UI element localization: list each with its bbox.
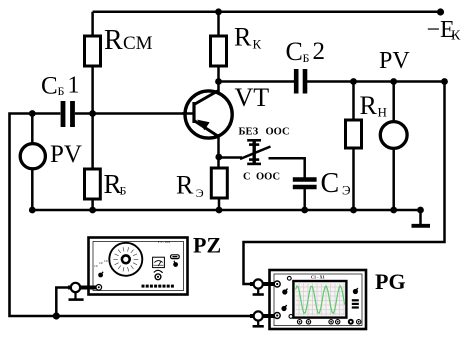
svg-text:10: 10 [104,259,108,263]
switch SA contact post [247,140,261,164]
capacitor Cb1 [63,101,73,127]
dial [109,243,142,276]
svg-text:С: С [321,168,340,199]
svg-text:R: R [176,171,194,200]
screen grid [299,284,344,316]
svg-text:БЕЗ: БЕЗ [239,127,259,138]
wire bottom rail [32,209,420,212]
node top rail / Rk junction [215,8,222,15]
node bus junction [53,312,60,319]
terminal PG input 1 [253,279,264,294]
node base junction [89,110,96,117]
left tiny labels [94,259,108,268]
node output corner [441,78,448,85]
wire Rcm branch vertical [91,12,94,114]
wire emitter vertical [217,137,220,169]
terminal PZ output [69,283,84,300]
wire output line [305,80,445,83]
wire Ce bottom lead [303,187,306,210]
label PV left [50,141,82,168]
svg-text:10: 10 [99,261,103,265]
svg-text:PV: PV [379,48,410,74]
wire Rn bottom lead [352,148,355,210]
node Rn top [350,78,357,85]
wire PV left leads [31,114,34,143]
transistor VT [182,91,232,139]
label BEZ OOS [239,127,290,138]
wire output to PG input 1 [244,82,445,285]
svg-text:С: С [41,73,58,100]
node collector [215,78,222,85]
svg-text:ООС: ООС [266,127,290,138]
label S OOS [243,172,280,183]
svg-text:PZ: PZ [193,233,221,258]
svg-text:PG: PG [375,269,406,294]
node PV right top [390,78,397,85]
node Re bottom [216,207,223,214]
svg-text:С: С [286,37,303,66]
small circle below screen left [289,315,293,319]
wire collector to Cb2 [219,80,295,83]
panel meter [153,257,165,267]
node PV right bottom [390,207,397,214]
wire into PZ terminal [87,286,97,290]
resistor Rcm [85,36,101,66]
svg-text:К: К [451,29,461,44]
panel terminals [274,281,280,287]
switch SA lever [240,147,271,160]
svg-text:Б: Б [303,51,310,65]
wire Re bottom lead [218,198,221,210]
wire base line [75,112,193,115]
svg-text:R: R [360,91,378,120]
small knob right [173,262,178,267]
svg-text:Б: Б [120,184,127,198]
resistor Rn [346,120,362,148]
label Cb1 [41,73,80,100]
node Rn bottom [350,207,357,214]
wire Rn branch [352,82,355,121]
svg-text:С: С [243,172,251,183]
svg-text:R: R [104,25,123,56]
knob under meter [154,270,163,272]
right switch bars [352,299,359,308]
node ground junction [417,207,424,214]
label PG [375,269,406,294]
waveform [296,286,345,314]
svg-text:Б: Б [58,84,65,98]
svg-text:ООС: ООС [256,172,280,183]
svg-text:1: 1 [68,73,80,99]
node -Ek terminal [437,8,444,15]
label Rcm [104,25,153,56]
node Ce bottom [301,207,308,214]
capacitor Ce [293,180,317,188]
ground [412,210,431,226]
svg-text:С1 - Х1: С1 - Х1 [311,275,325,280]
knobs left [282,289,287,294]
label -Ek [427,17,462,44]
wire into PG terminal 1 [268,282,276,286]
node PV left top [29,110,36,117]
label Rk [234,23,262,52]
instrument PZ generator [87,238,188,295]
label Rn [360,91,387,120]
bottom row circles [297,320,361,324]
node emitter [215,154,222,161]
wire PG input 1 thick [250,282,272,286]
label VT [235,83,270,112]
wire Rk branch [217,12,220,92]
svg-text:СМ: СМ [123,33,153,54]
indicator window [171,255,180,259]
wire emitter to switch [219,156,242,159]
svg-text:PV: PV [50,141,82,168]
voltmeter PV right [380,122,407,149]
label Cb2 [286,37,326,66]
wire PG input 2 thick [250,314,272,318]
svg-text:2: 2 [313,38,326,65]
right knob [353,289,358,294]
resistor Re [211,168,227,198]
svg-text:VT: VT [235,83,270,112]
svg-text:Э: Э [342,183,351,198]
capacitor Cb2 [296,69,305,94]
svg-text:Н: Н [378,105,387,120]
node Rb bottom [89,207,96,214]
wire Rb branch vertical [91,114,94,211]
wire switch to Ce [269,158,305,178]
svg-text:Э: Э [196,186,204,200]
voltmeter PV left [20,144,45,169]
node PV left bottom [29,207,36,214]
resistor Rb [85,169,101,199]
svg-text:R: R [234,23,252,52]
resistor Rk [211,36,227,66]
terminal PG input 2 [253,311,264,326]
label Rb [104,169,127,199]
instrument PG oscilloscope [268,270,366,329]
svg-text:К: К [253,37,262,52]
left knob [98,273,103,278]
wire top rail [93,11,441,14]
buttons row [142,285,174,288]
small top circle [287,276,291,280]
label Ce [321,168,352,199]
wire input line left [10,114,272,317]
screen [293,281,346,318]
panel terminal [96,285,102,291]
label Re [176,171,204,200]
label PV right [379,48,410,74]
wire PV right leads [392,82,395,121]
wire PZ terminal drop [56,288,72,317]
svg-text:Г3 - 109: Г3 - 109 [158,240,170,244]
svg-text:10: 10 [94,264,98,268]
wire PZ terminal thick [68,286,99,290]
label PZ [193,233,221,258]
wire into PG terminal 2 [268,314,276,318]
